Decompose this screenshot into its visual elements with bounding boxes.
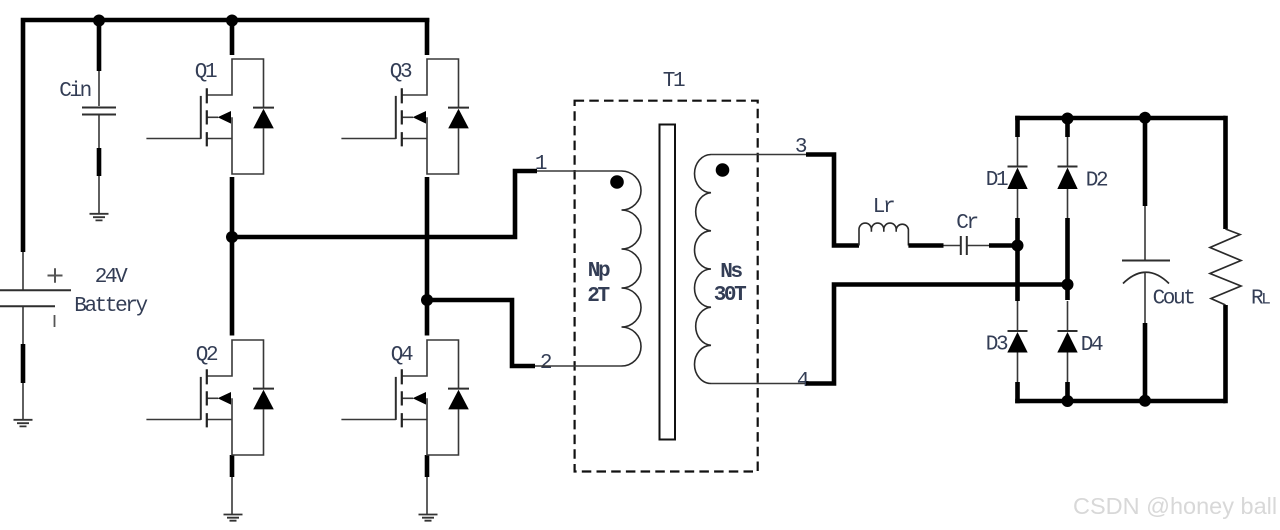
wire: Q4 source stub — [425, 455, 430, 477]
svg-text:Cin: Cin — [59, 80, 90, 103]
diode D2 — [1057, 137, 1077, 218]
resistor RL — [1210, 116, 1241, 404]
wire: pin 4 to lower rectifier rail — [806, 285, 1068, 384]
diode D1 — [1007, 137, 1027, 218]
svg-text:24V: 24V — [95, 266, 128, 289]
wire: Q1 leg top — [230, 20, 235, 55]
node: bridge B midpoint — [421, 294, 433, 306]
wire: D1 branch thick stubs — [1015, 116, 1020, 404]
wire: rectifier top rail — [1015, 116, 1225, 121]
capacitor Cr — [961, 236, 967, 255]
wire: pin 2 lead to primary — [535, 365, 622, 367]
wire: Q3 leg top — [425, 18, 430, 55]
svg-text:1: 1 — [535, 153, 547, 176]
wire: secondary pin 4 lead — [711, 383, 806, 385]
svg-text:RL: RL — [1251, 288, 1270, 311]
wire: mid rail to transformer pin 1 — [232, 171, 537, 237]
wire: Q4 ground lead — [426, 477, 428, 515]
node: top rail / Q1 leg junction — [226, 15, 238, 27]
battery plus sign — [48, 268, 63, 283]
wire: secondary pin 3 lead — [711, 154, 806, 156]
svg-text:Q1: Q1 — [195, 61, 217, 84]
inductor Lr — [859, 223, 908, 245]
wire: pin 3 to Lr — [806, 155, 859, 246]
svg-text:CSDN @honey ball: CSDN @honey ball — [1073, 493, 1277, 519]
svg-text:T1: T1 — [663, 70, 685, 93]
svg-text:Cr: Cr — [956, 212, 977, 235]
svg-text:30T: 30T — [714, 284, 746, 307]
wire: Q2 ground lead — [231, 477, 233, 515]
transformer core — [660, 125, 676, 440]
svg-text:D4: D4 — [1081, 334, 1103, 357]
wire: Cr left lead — [944, 245, 961, 247]
wire: Cr to rectifier node — [989, 243, 1018, 248]
wire: pin 1 lead to primary — [537, 170, 622, 172]
svg-text:Q3: Q3 — [390, 61, 412, 84]
battery BT1 24V — [0, 252, 71, 420]
ground (Q2) — [224, 515, 243, 521]
svg-text:Cout: Cout — [1153, 288, 1195, 311]
wire: Q3-Q4 leg — [425, 177, 430, 336]
svg-text:2T: 2T — [587, 285, 609, 308]
node: lower rail / D2-D4 junction — [1062, 279, 1074, 291]
wire: Cin top stub — [97, 18, 102, 71]
wire: B midpoint to transformer pin 2 — [427, 300, 535, 366]
diode D4 — [1057, 301, 1077, 382]
wire: Q2 source stub — [230, 455, 235, 477]
svg-text:D3: D3 — [986, 334, 1008, 357]
ground (Q4) — [419, 515, 438, 521]
svg-text:Lr: Lr — [873, 196, 894, 219]
transistor Q4 — [341, 340, 469, 455]
winding Ns secondary — [695, 155, 712, 384]
ground (Cin) — [90, 214, 109, 221]
transistor Q2 — [146, 340, 274, 455]
battery minus mark — [54, 315, 56, 327]
node: top rail / Cin junction — [93, 15, 105, 27]
node: top rail / D2 — [1062, 113, 1074, 125]
svg-text:D1: D1 — [986, 169, 1008, 192]
capacitor Cin — [82, 71, 116, 214]
transistor Q3 — [341, 59, 469, 174]
primary phase dot — [610, 175, 624, 189]
svg-text:Q2: Q2 — [196, 344, 218, 367]
node: bridge A midpoint — [226, 231, 238, 243]
svg-text:Np: Np — [588, 260, 610, 283]
node: bottom rail / D4 — [1062, 395, 1074, 407]
wire: DC bus top rail + left battery leg — [23, 20, 429, 252]
node: bottom rail / Cout — [1139, 395, 1151, 407]
svg-text:3: 3 — [795, 136, 807, 159]
secondary phase dot — [716, 163, 730, 177]
ground (battery) — [14, 420, 33, 427]
diode D3 — [1007, 301, 1027, 382]
winding Np primary — [622, 171, 642, 366]
capacitor Cout — [1122, 116, 1170, 404]
transformer T1 dashed box — [575, 101, 758, 472]
wire: rectifier bottom rail — [1015, 399, 1225, 404]
svg-text:2: 2 — [540, 352, 552, 375]
wire: Cr right lead — [968, 245, 990, 247]
node: Cr / D1-D3 junction — [1012, 240, 1024, 252]
node: top rail / Cout — [1139, 112, 1151, 124]
wire: Q1-Q2 mid leg — [230, 177, 235, 336]
svg-text:Ns: Ns — [720, 261, 742, 284]
wire: D2 branch thick stubs — [1065, 118, 1070, 401]
svg-text:D2: D2 — [1086, 170, 1108, 193]
svg-text:Q4: Q4 — [391, 344, 413, 367]
svg-text:Battery: Battery — [74, 295, 147, 318]
wire: Lr to Cr — [908, 243, 943, 248]
transistor Q1 — [146, 59, 274, 174]
